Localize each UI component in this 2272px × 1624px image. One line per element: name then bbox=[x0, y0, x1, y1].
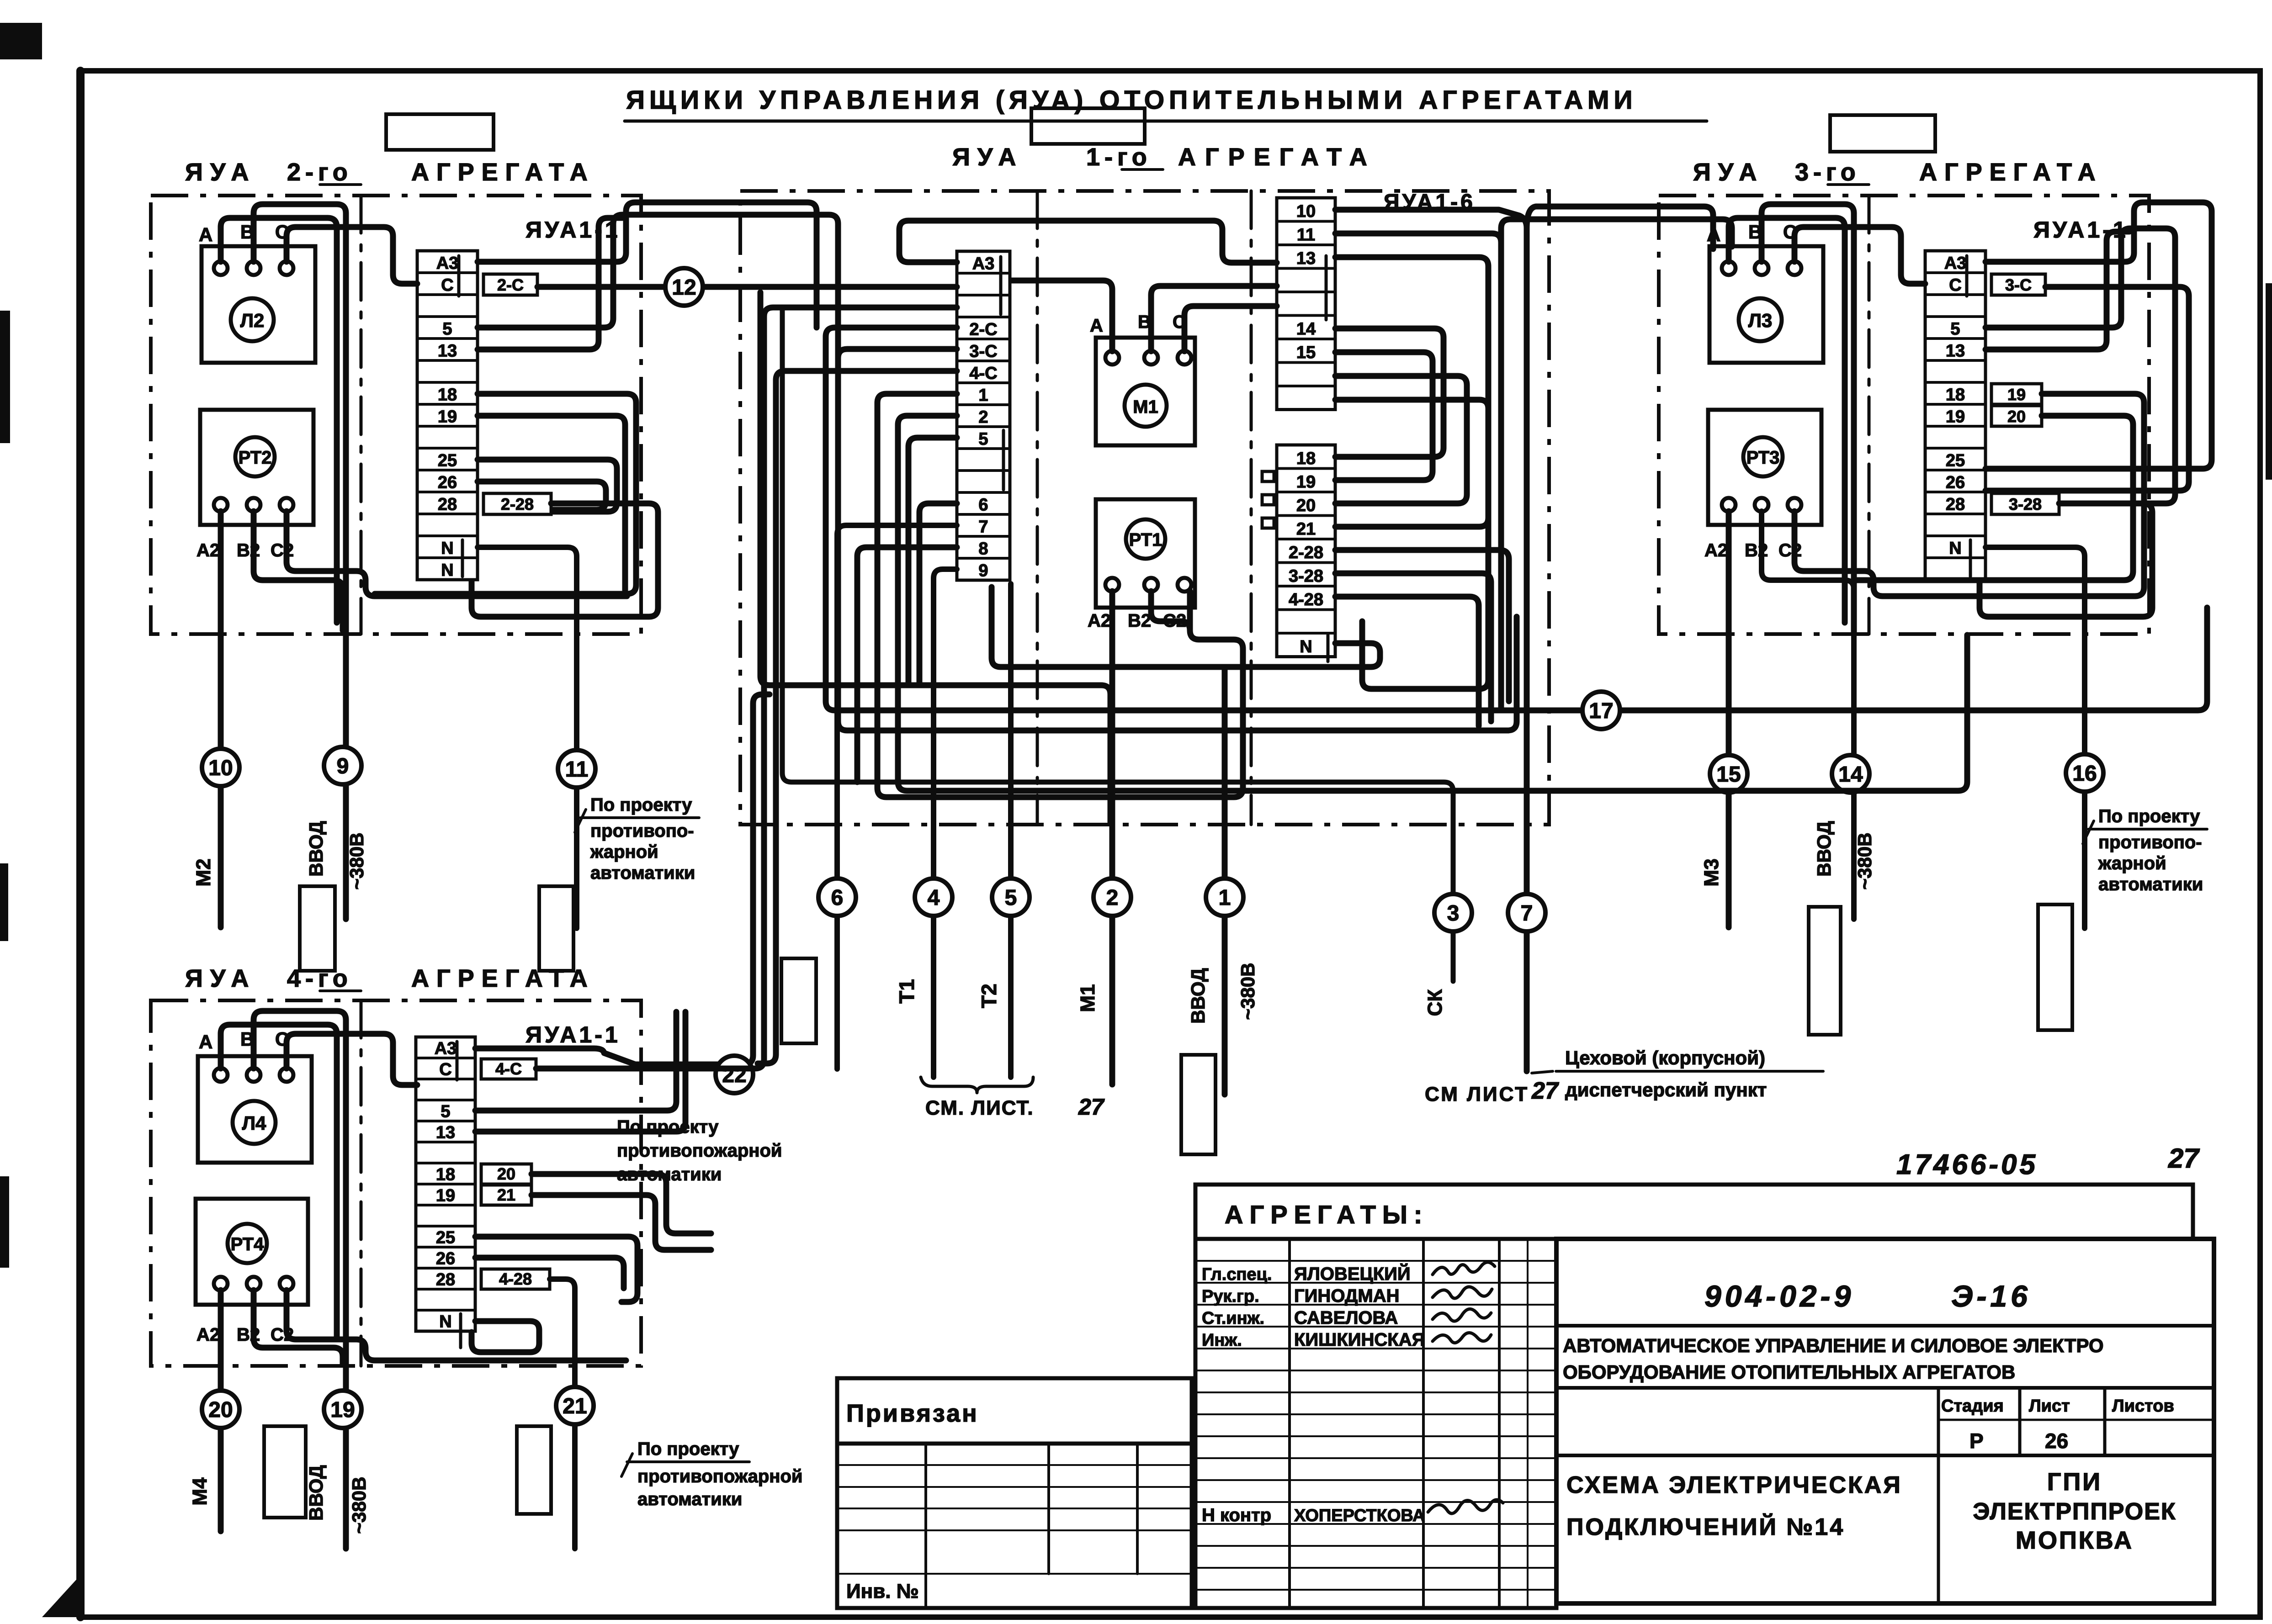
terminal B2 of РТ4 bbox=[247, 1277, 260, 1291]
svg-text:2: 2 bbox=[1106, 886, 1119, 910]
svg-text:противопо-: противопо- bbox=[590, 821, 694, 841]
svg-text:N: N bbox=[441, 561, 453, 580]
svg-text:ЯУА: ЯУА bbox=[1693, 159, 1764, 186]
box ЯУА 1-го АГРЕГАТА bbox=[740, 191, 1549, 825]
node 6 bbox=[818, 878, 856, 916]
handwritten 17466-05 bbox=[1896, 1149, 2038, 1180]
svg-text:2-го: 2-го bbox=[287, 159, 352, 186]
svg-text:25: 25 bbox=[1946, 451, 1965, 470]
svg-text:Листов: Листов bbox=[2112, 1397, 2174, 1416]
wire ВВОД drop (unit 4) bbox=[343, 1366, 349, 1549]
wire 3-28 row east bbox=[1335, 573, 1491, 721]
svg-text:10: 10 bbox=[208, 756, 233, 780]
wire rows b9-21 link bbox=[1335, 400, 1488, 527]
label B of М1 bbox=[1138, 312, 1151, 332]
empty duct rectangle left (unit 3) bbox=[1809, 907, 1841, 1035]
svg-text:А: А bbox=[1090, 316, 1103, 336]
svg-text:4-С: 4-С bbox=[969, 364, 997, 383]
svg-text:8: 8 bbox=[978, 539, 988, 558]
wire М1 phase C to ЯУА1-6 bbox=[1184, 306, 1277, 351]
terminal A of М1 bbox=[1105, 351, 1119, 365]
label C of М1 bbox=[1173, 312, 1186, 332]
signature 5 bbox=[1428, 1500, 1503, 1513]
text Гл.спец. Яловецкий bbox=[1202, 1263, 1411, 1284]
svg-text:С: С bbox=[1949, 275, 1961, 295]
sheet left heavy border bbox=[76, 71, 85, 1617]
text МОПКВА bbox=[2016, 1527, 2134, 1554]
wire overhead link B to unit 3 bbox=[1501, 219, 1732, 247]
label A2 of РТ1 bbox=[1088, 611, 1111, 631]
svg-text:26: 26 bbox=[438, 473, 457, 492]
svg-text:диспетчерский пункт: диспетчерский пункт bbox=[1565, 1079, 1767, 1100]
wire 2-С tag bus 12 bbox=[537, 284, 957, 290]
terminal A2 of РТ4 bbox=[214, 1277, 228, 1291]
svg-text:20: 20 bbox=[497, 1164, 515, 1183]
stage header underline bbox=[1938, 1419, 2214, 1421]
tick mark N row (unit 2) bbox=[461, 540, 464, 577]
svg-text:В2: В2 bbox=[1128, 611, 1151, 631]
svg-text:Лист: Лист bbox=[2029, 1397, 2070, 1416]
svg-text:А3: А3 bbox=[435, 1039, 457, 1058]
svg-text:18: 18 bbox=[1296, 449, 1316, 468]
signature 4 bbox=[1433, 1333, 1491, 1343]
wire ВВОД drop (unit 2) bbox=[343, 634, 349, 919]
scan smudge left edge 1 bbox=[0, 311, 10, 443]
wire 2-28 row east bbox=[1335, 550, 1509, 701]
wire row 13 (unit 4) bbox=[475, 1012, 685, 1132]
tick mark 5 (unit 1 strip) bbox=[1002, 430, 1005, 490]
title ЯУА 4-го АГРЕГАТА bbox=[185, 965, 595, 992]
svg-text:РТ1: РТ1 bbox=[1129, 530, 1163, 550]
svg-text:автоматики: автоматики bbox=[637, 1489, 742, 1509]
svg-text:2-С: 2-С bbox=[497, 275, 524, 294]
label ВВОД (unit 3) bbox=[1813, 821, 1835, 877]
label ~380В (unit 3) bbox=[1854, 833, 1875, 890]
tag box 4-28 (unit 4) bbox=[481, 1269, 550, 1289]
wire 4-С row west bbox=[758, 371, 957, 1063]
svg-text:Рук.гр.: Рук.гр. bbox=[1202, 1287, 1259, 1306]
label B2 of РТ1 bbox=[1128, 611, 1151, 631]
node 14 bbox=[1832, 755, 1869, 793]
svg-text:28: 28 bbox=[1946, 495, 1965, 514]
terminal strip ЯУА1-6 lower bbox=[1277, 445, 1335, 657]
wire row 10 east bbox=[1335, 210, 1527, 228]
label A2 of РТ4 bbox=[196, 1325, 220, 1345]
svg-text:Л4: Л4 bbox=[242, 1112, 266, 1134]
svg-text:АВТОМАТИЧЕСКОЕ УПРАВЛЕНИЕ И С: АВТОМАТИЧЕСКОЕ УПРАВЛЕНИЕ И СИЛОВОЕ ЭЛЕК… bbox=[1563, 1335, 2104, 1356]
svg-text:26: 26 bbox=[2045, 1429, 2068, 1453]
svg-text:~380В: ~380В bbox=[1237, 963, 1258, 1020]
terminal A of Л2 (unit 2) bbox=[214, 261, 228, 275]
tag box 3-28 (unit 3) bbox=[1991, 493, 2059, 514]
svg-text:жарной: жарной bbox=[2098, 853, 2166, 873]
terminal B2 of РТ2 (unit 2) bbox=[247, 498, 260, 512]
title block line 2 bbox=[1556, 1386, 2214, 1390]
svg-text:А3: А3 bbox=[972, 254, 995, 273]
box АГРЕГАТЫ header bbox=[1195, 1185, 2193, 1239]
svg-text:А2: А2 bbox=[196, 1325, 220, 1345]
svg-text:СК: СК bbox=[1424, 989, 1446, 1016]
svg-text:жарной: жарной bbox=[590, 842, 658, 862]
svg-text:Э-16: Э-16 bbox=[1951, 1279, 2031, 1313]
svg-text:А2: А2 bbox=[1704, 540, 1728, 561]
scan smudge left edge 2 bbox=[0, 863, 8, 941]
tick mark N row (unit 4) bbox=[459, 1314, 462, 1348]
svg-text:Т2: Т2 bbox=[977, 984, 1001, 1008]
wire C2 of РТ4 bbox=[287, 1290, 626, 1360]
label C of Л4 bbox=[275, 1028, 289, 1050]
svg-text:М2: М2 bbox=[192, 858, 215, 886]
svg-text:ХОПЕРСТКОВА: ХОПЕРСТКОВА bbox=[1294, 1506, 1425, 1525]
svg-text:АГРЕГАТА: АГРЕГАТА bbox=[411, 159, 595, 186]
Привязан table frame bbox=[837, 1444, 1192, 1608]
callout Цеховой диспетчерский пункт bbox=[1532, 1047, 1823, 1100]
wire row b3 to unit4 tag bbox=[536, 307, 957, 1069]
svg-text:4-С: 4-С bbox=[495, 1059, 522, 1078]
svg-text:13: 13 bbox=[1296, 249, 1316, 268]
text Ст.инж. Савелова bbox=[1202, 1308, 1398, 1328]
signature 2 bbox=[1433, 1287, 1492, 1298]
label ВВОД (unit 4) bbox=[305, 1465, 327, 1521]
tick mark A3 (unit 1 strip) bbox=[999, 257, 1003, 314]
svg-text:13: 13 bbox=[438, 341, 457, 360]
wire tag 20 row (unit 4) bbox=[531, 1174, 711, 1233]
label A of Л3 (unit 3) bbox=[1707, 224, 1720, 245]
underline го of unit 3 title bbox=[1828, 183, 1869, 186]
wire row 1 to РТ1 C2 bbox=[877, 394, 1243, 797]
label ~380В (unit 1) bbox=[1237, 963, 1258, 1020]
label ЯУА1-1 of ЯУА 2-го АГРЕГАТА (unit 2) bbox=[526, 217, 621, 243]
svg-text:С: С bbox=[439, 1060, 451, 1079]
wire row 18 down (unit 2) bbox=[375, 394, 636, 594]
wire C2 of РТ3 bbox=[1794, 511, 2135, 596]
svg-text:Инж.: Инж. bbox=[1202, 1331, 1242, 1350]
label Т1 bbox=[895, 979, 918, 1004]
tag box 21 (unit 4) bbox=[481, 1185, 531, 1205]
label М3 bbox=[1700, 858, 1723, 886]
svg-text:С2: С2 bbox=[1778, 540, 1802, 561]
terminal B of Л4 bbox=[247, 1068, 260, 1082]
svg-text:19: 19 bbox=[1946, 407, 1965, 426]
node 17 bbox=[1582, 692, 1620, 729]
label B of Л3 (unit 3) bbox=[1748, 221, 1762, 243]
wire М1 phase A to strip bbox=[1012, 280, 1112, 351]
text см лист 27 right bbox=[1425, 1078, 1559, 1106]
divider in ЯУА 3-го АГРЕГАТА (unit 3) bbox=[1868, 196, 1871, 634]
scan smudge top-left corner bbox=[0, 23, 42, 59]
label C2 of РТ4 bbox=[271, 1325, 294, 1345]
wire row 6 down (unit 1) bbox=[919, 503, 957, 685]
svg-text:ГИНОДМАН: ГИНОДМАН bbox=[1294, 1286, 1400, 1306]
wire rows 14-18 link bbox=[1335, 328, 1444, 457]
svg-text:ЭЛЕКТРППРОЕК: ЭЛЕКТРППРОЕК bbox=[1973, 1498, 2176, 1525]
svg-text:21: 21 bbox=[563, 1394, 587, 1418]
callout По проекту bottom (unit 4) bbox=[621, 1439, 802, 1509]
wire row 26 to tag (unit 2) bbox=[478, 481, 606, 510]
wire tag20 row (unit 3) bbox=[1856, 416, 2133, 580]
box Привязан bbox=[837, 1378, 1192, 1444]
svg-text:противопожарной: противопожарной bbox=[637, 1466, 802, 1486]
wire bus 12 branch down bbox=[760, 292, 1110, 822]
wire phase A of Л4 bbox=[221, 1025, 337, 1338]
svg-text:М4: М4 bbox=[189, 1477, 211, 1506]
svg-text:автоматики: автоматики bbox=[2098, 874, 2203, 894]
tag rectangle above unit 3 bbox=[1830, 115, 1935, 152]
label ЯУА1-1 of ЯУА 3-го АГРЕГАТА (unit 3) bbox=[2033, 217, 2129, 243]
callout По проекту (unit 2) bbox=[575, 795, 699, 883]
wire row 11 east down bbox=[1335, 233, 1501, 710]
svg-text:20: 20 bbox=[1296, 496, 1316, 515]
svg-text:В2: В2 bbox=[1745, 540, 1768, 561]
wire М1 phase B to ЯУА1-6 bbox=[1151, 286, 1277, 351]
label B2 of РТ3 (unit 3) bbox=[1745, 540, 1768, 561]
empty duct rectangle right (unit 3) bbox=[2038, 905, 2072, 1030]
node 1 bbox=[1206, 878, 1243, 916]
wire А2 РТ1 drop М1 bbox=[1109, 591, 1115, 1084]
label C of Л2 (unit 2) bbox=[275, 221, 289, 243]
terminal C of М1 bbox=[1178, 351, 1191, 365]
tag box 19 (unit 3) bbox=[1991, 384, 2042, 404]
svg-text:26: 26 bbox=[1946, 473, 1965, 492]
wire N row loop (unit 4) bbox=[472, 1321, 539, 1352]
underline го of unit 4 title bbox=[320, 989, 361, 992]
text ГПИ bbox=[2047, 1468, 2102, 1496]
wire 3-28 tag east (unit 3) bbox=[1980, 503, 2152, 617]
svg-text:27: 27 bbox=[1078, 1094, 1105, 1120]
stub mark row 20 bbox=[1262, 495, 1274, 505]
divider center-left in unit 1 bbox=[1036, 191, 1039, 825]
svg-text:4-28: 4-28 bbox=[499, 1270, 532, 1288]
wire A3 row to node 22 (unit 4) bbox=[475, 694, 770, 1064]
svg-text:По проекту: По проекту bbox=[617, 1117, 719, 1137]
relay box РТ4 bbox=[196, 1199, 308, 1305]
svg-text:А3: А3 bbox=[1944, 254, 1967, 273]
svg-text:27: 27 bbox=[2168, 1143, 2200, 1174]
label A2 of РТ3 (unit 3) bbox=[1704, 540, 1728, 561]
svg-text:По проекту: По проекту bbox=[2098, 806, 2200, 826]
svg-text:4-го: 4-го bbox=[287, 965, 352, 992]
svg-text:ВВОД: ВВОД bbox=[1187, 968, 1209, 1024]
node 4 bbox=[915, 878, 952, 916]
label ВВОД (unit 2) bbox=[305, 821, 327, 877]
svg-text:КИШКИНСКАЯ: КИШКИНСКАЯ bbox=[1294, 1330, 1425, 1350]
svg-text:АГРЕГАТА: АГРЕГАТА bbox=[1178, 143, 1376, 171]
relay box РТ1 bbox=[1096, 499, 1195, 608]
wire row 19 down (unit 2) bbox=[478, 416, 625, 590]
terminal A2 of РТ3 (unit 3) bbox=[1722, 498, 1736, 512]
callout По проекту (unit 3) bbox=[2083, 806, 2207, 894]
relay РТ1 bbox=[1126, 519, 1165, 559]
label C2 of РТ2 (unit 2) bbox=[271, 540, 294, 561]
box ЯУА 3-го АГРЕГАТА (unit 3) bbox=[1659, 196, 2149, 634]
tag box 20 (unit 3) bbox=[1991, 406, 2042, 426]
node 10 bbox=[202, 749, 239, 786]
svg-text:По проекту: По проекту bbox=[590, 795, 692, 815]
label B of Л2 (unit 2) bbox=[240, 221, 254, 243]
label ~380В (unit 2) bbox=[346, 833, 367, 890]
node 20 bbox=[202, 1391, 239, 1428]
label A of Л2 (unit 2) bbox=[199, 224, 212, 245]
svg-text:МОПКВА: МОПКВА bbox=[2016, 1527, 2134, 1554]
node 9 bbox=[324, 747, 361, 784]
wire rows b8-20 link bbox=[1335, 376, 1467, 503]
text Инв № bbox=[846, 1580, 919, 1603]
svg-text:С2: С2 bbox=[271, 540, 294, 561]
svg-text:7: 7 bbox=[1521, 901, 1533, 926]
node 22 bbox=[716, 1056, 753, 1093]
label ЯУА1-6 of unit 1 bbox=[1384, 190, 1476, 214]
tick mark A3 row (unit 3) bbox=[1965, 256, 1969, 296]
wire row 5 to bus (unit 2) bbox=[478, 215, 838, 358]
text ЭЛЕКТРППРОЕК bbox=[1973, 1498, 2176, 1525]
stub mark row 21 bbox=[1262, 518, 1274, 528]
wire phase A of Л2 (unit 2) bbox=[221, 218, 337, 623]
wire row 13 (unit 3) bbox=[1985, 232, 2129, 349]
svg-text:4: 4 bbox=[928, 886, 940, 910]
svg-text:1-го: 1-го bbox=[1086, 143, 1152, 171]
svg-text:автоматики: автоматики bbox=[617, 1164, 722, 1185]
node 15 bbox=[1710, 755, 1747, 793]
node 21 bbox=[556, 1387, 594, 1424]
svg-text:3: 3 bbox=[1447, 901, 1460, 926]
svg-text:19: 19 bbox=[330, 1398, 355, 1422]
wire row 25 to tag (unit 2) bbox=[478, 460, 617, 512]
svg-text:3-С: 3-С bbox=[2005, 275, 2032, 294]
svg-text:14: 14 bbox=[1296, 320, 1316, 339]
svg-text:СХЕМА ЭЛЕКТРИЧЕСКАЯ: СХЕМА ЭЛЕКТРИЧЕСКАЯ bbox=[1566, 1472, 1902, 1498]
svg-text:16: 16 bbox=[2072, 762, 2097, 786]
wire bus 1712 bbox=[782, 307, 1453, 981]
wire 4-28 tag drop 21 (unit 4) bbox=[550, 1279, 575, 1549]
text Н контр Хоперсткова bbox=[1202, 1505, 1425, 1525]
svg-text:Л2: Л2 bbox=[240, 310, 265, 331]
breaker box Л2 (unit 2) bbox=[202, 246, 315, 363]
label C2 of РТ3 (unit 3) bbox=[1778, 540, 1802, 561]
svg-text:5: 5 bbox=[1950, 319, 1960, 339]
wire tag19 row (unit 3) bbox=[2042, 394, 2144, 596]
text см.лист. 27 center bbox=[925, 1094, 1105, 1120]
wire 4-28 row east bbox=[1335, 597, 1479, 726]
underline го of unit 2 title bbox=[320, 183, 361, 186]
breaker box М1 motor bbox=[1096, 338, 1195, 445]
text Стадия Лист Листов bbox=[1941, 1397, 2174, 1416]
svg-text:ВВОД: ВВОД bbox=[305, 1465, 327, 1521]
wire phase C of Л2 (unit 2) bbox=[287, 227, 417, 284]
svg-text:21: 21 bbox=[497, 1185, 515, 1204]
tick mark N row (unit 3) bbox=[1969, 540, 1972, 577]
label C of Л3 (unit 3) bbox=[1783, 221, 1797, 243]
wire A3 row bus up (unit 3) bbox=[1985, 202, 2212, 469]
svg-text:Ст.инж.: Ст.инж. bbox=[1202, 1309, 1264, 1328]
title ЯУА 2-го АГРЕГАТА bbox=[185, 159, 595, 186]
svg-text:ЯЩИКИ УПРАВЛЕНИЯ (ЯУА) ОТОП: ЯЩИКИ УПРАВЛЕНИЯ (ЯУА) ОТОПИТЕЛЬНЫМИ АГР… bbox=[626, 85, 1637, 115]
tick mark A3 row (unit 4) bbox=[456, 1042, 459, 1080]
empty duct rectangle right (unit 2) bbox=[539, 886, 573, 971]
text Р 26 bbox=[1969, 1429, 2068, 1453]
tag rectangle above unit 2 bbox=[386, 114, 494, 150]
svg-text:РТ4: РТ4 bbox=[231, 1234, 265, 1254]
label СК bbox=[1424, 989, 1446, 1016]
svg-text:~380В: ~380В bbox=[348, 1477, 370, 1534]
svg-text:5: 5 bbox=[441, 1102, 450, 1121]
wire row 13 to bus (unit 2) bbox=[478, 218, 622, 349]
svg-text:противопо-: противопо- bbox=[2098, 832, 2202, 852]
breaker box Л3 (unit 3) bbox=[1709, 246, 1823, 363]
svg-text:10: 10 bbox=[1296, 202, 1316, 221]
svg-text:2-28: 2-28 bbox=[1289, 543, 1323, 562]
empty duct rectangle (unit 1 right) bbox=[1181, 1055, 1216, 1154]
terminal A2 of РТ1 bbox=[1105, 578, 1119, 592]
stage column dividers bbox=[1938, 1388, 2105, 1603]
svg-text:14: 14 bbox=[1838, 762, 1863, 787]
svg-text:Привязан: Привязан bbox=[846, 1400, 979, 1427]
title ЯУА 3-го АГРЕГАТА bbox=[1693, 159, 2103, 186]
svg-text:1: 1 bbox=[978, 386, 988, 405]
signature 3 bbox=[1433, 1309, 1491, 1321]
empty duct rectangle left (unit 2) bbox=[300, 886, 335, 971]
handwritten 27 sheet no bbox=[2168, 1143, 2200, 1174]
svg-text:19: 19 bbox=[1296, 473, 1316, 492]
svg-text:28: 28 bbox=[436, 1270, 455, 1290]
wire phase A of Л3 (unit 3) bbox=[1729, 218, 1845, 623]
svg-text:9: 9 bbox=[337, 754, 349, 778]
svg-text:19: 19 bbox=[2007, 385, 2026, 404]
svg-text:противопожарной: противопожарной bbox=[617, 1141, 782, 1161]
svg-text:28: 28 bbox=[438, 495, 457, 514]
svg-text:4-28: 4-28 bbox=[1289, 590, 1323, 609]
svg-text:12: 12 bbox=[672, 275, 696, 300]
wire row 2 to bus 1731 bbox=[898, 416, 1967, 791]
label A of Л4 bbox=[199, 1031, 212, 1053]
svg-text:А2: А2 bbox=[196, 540, 220, 561]
node 11 bbox=[558, 750, 595, 788]
sheet title underline bbox=[625, 120, 1707, 123]
wire drop 7 bbox=[1524, 224, 1530, 1071]
wire B2 of РТ1 bbox=[1151, 591, 1190, 630]
wire N row drop 16 (unit 3) bbox=[1985, 547, 2085, 928]
relay box РТ2 (unit 2) bbox=[200, 410, 313, 525]
label C2 of РТ1 bbox=[1163, 611, 1186, 631]
wire row 8 down (unit 1) bbox=[857, 547, 957, 782]
terminal C of Л4 bbox=[280, 1068, 293, 1082]
wire row 25 down (unit 4) bbox=[475, 1237, 637, 1302]
svg-text:ЯУА1-1: ЯУА1-1 bbox=[526, 1022, 621, 1047]
svg-text:М1: М1 bbox=[1133, 397, 1158, 417]
svg-text:25: 25 bbox=[436, 1228, 455, 1248]
underline го of unit 1 title bbox=[1122, 168, 1163, 171]
terminal B2 of РТ3 (unit 3) bbox=[1755, 498, 1768, 512]
svg-text:7: 7 bbox=[978, 517, 988, 536]
handwritten 904-02-9 Э-16 bbox=[1704, 1279, 2031, 1313]
svg-text:А: А bbox=[199, 224, 212, 245]
label A of М1 bbox=[1090, 316, 1103, 336]
svg-text:ЯУА: ЯУА bbox=[185, 965, 256, 992]
breaker box Л4 bbox=[198, 1056, 312, 1163]
svg-text:АГРЕГАТА: АГРЕГАТА bbox=[1919, 159, 2103, 186]
wire 2-28 tag loop (unit 2) bbox=[472, 503, 658, 617]
svg-text:18: 18 bbox=[436, 1165, 455, 1185]
svg-text:По проекту: По проекту bbox=[637, 1439, 739, 1459]
relay РТ2 (unit 2) bbox=[235, 437, 275, 476]
tag box 2-С (unit 2) bbox=[483, 274, 537, 295]
label Т2 bbox=[977, 984, 1001, 1008]
node 7 bbox=[1508, 894, 1545, 931]
text АВТОМАТИЧЕСКОЕ УПРАВЛЕНИЕ bbox=[1563, 1335, 2104, 1356]
svg-text:ЯУА: ЯУА bbox=[185, 159, 256, 186]
scan smudge left edge 3 bbox=[0, 1176, 9, 1268]
svg-text:25: 25 bbox=[438, 451, 457, 470]
svg-text:27: 27 bbox=[1531, 1078, 1559, 1104]
